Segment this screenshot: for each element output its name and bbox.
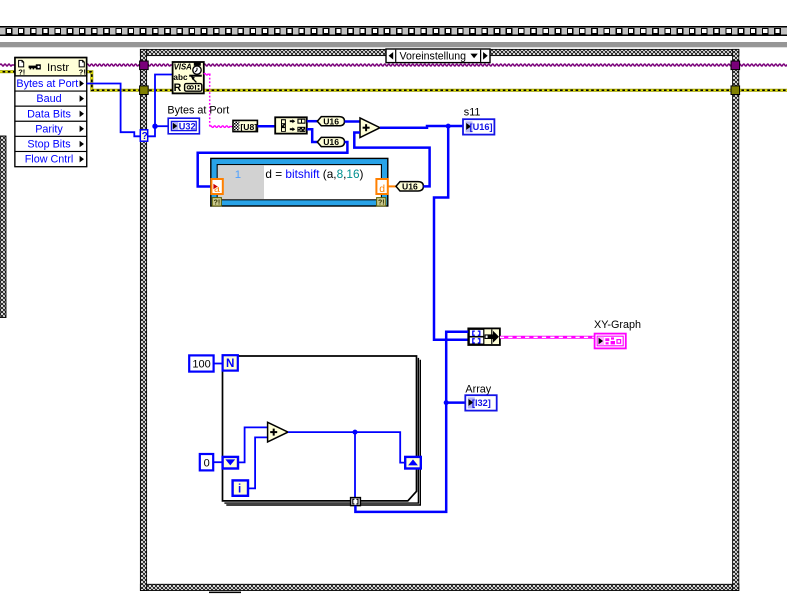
wire: [U8] -> Decimate [257,125,275,128]
svg-text:Instr: Instr [47,62,69,74]
svg-text:?: ? [142,131,148,142]
svg-text:U16: U16 [402,181,418,191]
svg-text:Data Bits: Data Bits [27,108,71,120]
shift register (right) [405,457,421,469]
svg-text:N: N [226,357,234,370]
Decimate 1D Array [275,117,307,133]
svg-text:U16: U16 [323,116,339,126]
wire: 0 -> shift register [213,461,222,463]
wire: shift register -> add [238,427,268,462]
add function (main) [360,118,380,138]
error wire (yellow/black dashed) [0,70,15,73]
indicator terminal Array [I32] [465,395,496,410]
expression node ?! glyph (right) [377,198,386,206]
svg-text:Voreinstellung: Voreinstellung [400,51,467,63]
wire: U16 -> add lower input [354,133,429,187]
svg-text:[U8]: [U8] [240,122,257,132]
svg-text:Stop Bits: Stop Bits [27,139,71,151]
conversion bubble U16 (bitshift output) [396,182,423,191]
svg-text:i: i [238,483,241,496]
svg-text:R: R [174,82,182,94]
sequence structure frame (film strip) [0,26,787,36]
conversion bubble U16 (bottom) [317,137,344,146]
wire: Bytes at Port property -> case selector [87,84,141,137]
case selector label "Voreinstellung" [386,49,490,63]
svg-text:?!: ?! [378,200,385,207]
tunnel (error wire, left) [140,86,149,95]
wire: junction down to loop tunnel [354,432,356,498]
wire: add -> s11 indicator [380,126,463,128]
indicator terminal XY-Graph [595,334,626,349]
svg-text:0: 0 [204,458,210,470]
case structure border [140,49,738,590]
VISA Configure Serial Port U2 [173,62,204,94]
wire: i -> add [248,437,268,488]
svg-text:abc: abc [173,73,188,82]
wire: d -> U16 conversion (orange) [388,185,397,187]
stray label underline at bottom [209,592,241,594]
wire: bottom U16 -> expression node input a [198,142,348,187]
constant 0 [200,454,213,470]
svg-text:Parity: Parity [35,123,63,135]
tunnel (VISA wire, right) [731,61,740,70]
loop output tunnel [] [351,498,361,506]
tunnel (error wire, right) [731,86,740,95]
wire: s11 branch down to Bundle [434,126,468,340]
svg-text:?!: ?! [79,68,86,77]
svg-text:1: 1 [235,169,241,181]
svg-text:Bytes at Port: Bytes at Port [16,78,78,90]
wire junction [152,124,157,129]
wire: 100 -> N [214,363,223,365]
string wire: VISA -> String To Byte Array (pink) [204,73,211,75]
svg-text:VISA: VISA [174,63,193,72]
svg-text:[U16]: [U16] [470,122,493,132]
svg-text:XY-Graph: XY-Graph [594,319,641,331]
property node "Instr" [15,58,87,167]
loop count terminal N [223,355,238,370]
svg-text:Bytes at Port: Bytes at Port [167,105,229,117]
wire junction at Array [444,400,449,405]
wire: selector branch up to VISA and right to U32 terminal [148,75,173,137]
svg-text:d = bitshift (a,8,16): d = bitshift (a,8,16) [265,167,363,181]
tunnel (VISA wire, left) [140,61,149,70]
wire: Decimate top out -> U16 conversion [307,120,319,123]
for loop stacked edges [224,358,418,503]
expression node: d = bitshift(a,8,16) [211,158,388,206]
svg-text:Flow Cntrl: Flow Cntrl [25,154,74,166]
expression node ?! glyph (left) [212,198,221,206]
indicator terminal U32 "Bytes at Port" [168,118,199,134]
iteration terminal i [233,480,248,495]
svg-text:?!: ?! [214,200,221,207]
wire: branch -> Array indicator [446,401,465,404]
expression node input terminal a [211,179,222,194]
String To Byte Array [233,120,257,131]
wire: Bundle -> XY-Graph (pink dashed) [500,336,595,339]
shift register (left) [223,457,238,469]
conversion bubble U16 (top) [317,117,344,126]
wire: top U16 -> add [345,120,361,123]
for loop border [223,356,417,501]
case selector terminal "?" [140,130,147,141]
constant 100 [189,355,213,371]
Bundle node [468,328,500,345]
wire junction in loop [353,430,358,435]
svg-text:Array: Array [465,384,491,396]
grey divider bar [0,42,787,47]
add function (in loop) [268,422,288,442]
expression node output terminal d [376,179,387,194]
svg-text:?!: ?! [18,68,25,77]
wire junction at s11 [446,124,451,129]
partial structure border at left edge [0,136,6,318]
svg-text:U16: U16 [323,137,339,147]
VISA resource wire (purple, wavy) [0,64,15,66]
svg-text:Baud: Baud [36,93,61,105]
wire: tunnel -> bundle/array (up right side) [355,332,468,512]
svg-text:U32: U32 [179,121,196,131]
svg-text:d: d [379,184,385,195]
wire: Decimate bottom out -> lower U16 conversion [307,129,319,142]
wire: add -> right shift register [288,432,405,463]
svg-text:s11: s11 [464,106,481,118]
indicator terminal s11 [U16] [463,119,494,134]
svg-text:100: 100 [192,359,210,371]
svg-text:[I32]: [I32] [472,398,491,408]
